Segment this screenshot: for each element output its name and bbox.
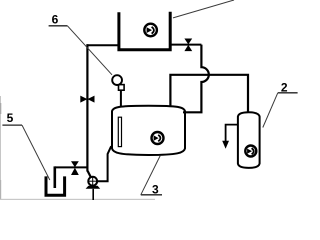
outlet arrow head [222, 141, 229, 149]
dip tube into tank 5 [53, 166, 56, 188]
feed line tank 1 right [169, 44, 201, 46]
agitator symbol in tank 2 [245, 146, 256, 157]
pump drain stem [92, 189, 94, 200]
mixing tank 1 (open top) [119, 12, 170, 50]
solvent tank 5 (open top) [46, 176, 65, 195]
pump outlet pipe up to tank 3 [98, 146, 112, 181]
leader line 6 to gauge [67, 26, 112, 75]
label 5 [2, 111, 22, 125]
pump circle [88, 177, 97, 186]
leader line 2 to tank 2 [263, 93, 278, 128]
downcomer pipe with hop to tank 3 [183, 45, 209, 113]
valve on riser pipe [80, 96, 94, 103]
leader line to label 1 (label off image) [173, 0, 234, 18]
scan edge artifact bottom [0, 199, 155, 200]
gauge 6 body [119, 85, 125, 91]
pipe from tank 1 bottom-left to riser [87, 44, 119, 46]
svg-text:6: 6 [52, 13, 59, 27]
pump base pedestal [86, 186, 101, 189]
storage tank 3 (horizontal vessel) [112, 106, 185, 155]
label 3 [141, 183, 162, 197]
level gauge in tank 3 [118, 117, 121, 146]
svg-text:5: 5 [7, 111, 14, 125]
valve on tank 1 right line [184, 39, 192, 52]
agitator symbol in tank 1 [144, 24, 157, 37]
leader line 3 to tank 3 [141, 156, 161, 195]
label 6 [49, 13, 68, 27]
pump inlet jog [87, 171, 90, 177]
label 2 [278, 80, 298, 94]
valve on tank 5 line [71, 161, 79, 175]
agitator symbol in tank 3 [152, 132, 164, 144]
condenser tank 2 (vertical vessel) [238, 112, 260, 168]
tank 2 outlet pipe [226, 125, 238, 142]
gauge 6 stem on tank 3 [120, 89, 122, 108]
vapor line from tank 3 top to tank 2 [170, 75, 248, 113]
riser pipe down to pump [86, 44, 88, 171]
feed line from tank 5 to riser [55, 166, 87, 168]
scan edge artifact left [0, 96, 1, 200]
gauge 6 dial circle [112, 75, 122, 85]
leader line 5 to tank 5 [22, 125, 50, 180]
